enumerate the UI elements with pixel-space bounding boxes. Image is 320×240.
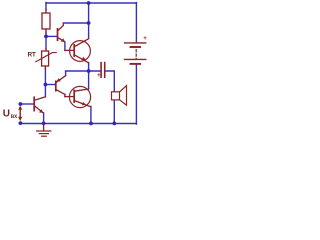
svg-text:RT: RT — [28, 52, 36, 59]
svg-text:U: U — [3, 109, 10, 120]
svg-text:+: + — [143, 35, 147, 42]
svg-text:+: + — [97, 73, 101, 79]
svg-text:вх: вх — [11, 113, 18, 120]
